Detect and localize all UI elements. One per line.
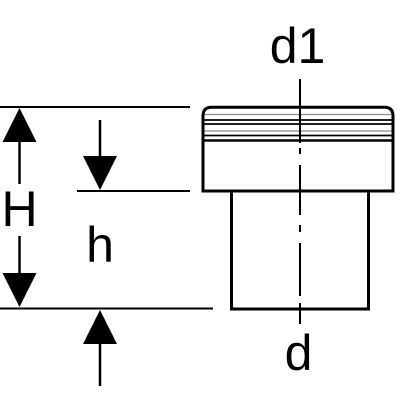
spigot right wall [367, 193, 370, 310]
dimension H upper line [18, 140, 21, 184]
svg-text:d: d [285, 325, 313, 381]
groove line 2 [205, 119, 392, 121]
svg-text:H: H [1, 181, 37, 237]
dimension h up arrow [83, 310, 117, 344]
groove line 5 [205, 135, 392, 137]
dimension H down arrow [3, 273, 37, 307]
dimension h down arrow [83, 156, 117, 190]
centerline dash 2 [299, 165, 301, 215]
svg-text:h: h [86, 217, 114, 273]
groove line 1 (light) [205, 114, 392, 116]
extension line shoulder (h datum) [77, 190, 190, 192]
centerline dot 2 [299, 225, 301, 232]
spigot left wall [230, 193, 233, 310]
centerline dash 1 [299, 79, 301, 143]
centerline dot 1 [299, 148, 301, 154]
centerline dash 3 [299, 243, 301, 296]
groove line 3 [205, 123, 392, 125]
socket bottom edge [202, 190, 395, 193]
spigot bottom edge [230, 308, 370, 311]
svg-text:d1: d1 [270, 18, 326, 74]
socket outline [203, 107, 393, 192]
dimension h upper line [99, 120, 102, 158]
dimension H lower line [18, 236, 21, 275]
extension line top (H datum) [0, 106, 190, 108]
groove line 6 (thick) [205, 139, 392, 142]
dimension H up arrow [3, 108, 37, 142]
dimension h lower line [99, 343, 102, 386]
extension line bottom [0, 308, 213, 310]
groove line 4 (light) [205, 130, 392, 132]
centerline dash 4 [299, 303, 301, 324]
